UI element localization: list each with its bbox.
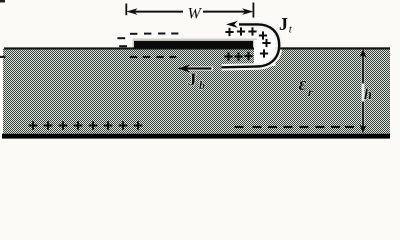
svg-text:b: b	[199, 78, 205, 92]
svg-text:ε: ε	[299, 74, 307, 95]
svg-text:J: J	[188, 70, 197, 90]
svg-text:h: h	[364, 87, 372, 103]
svg-text:J: J	[279, 14, 288, 34]
svg-text:r: r	[308, 85, 313, 99]
svg-text:W: W	[188, 6, 203, 23]
